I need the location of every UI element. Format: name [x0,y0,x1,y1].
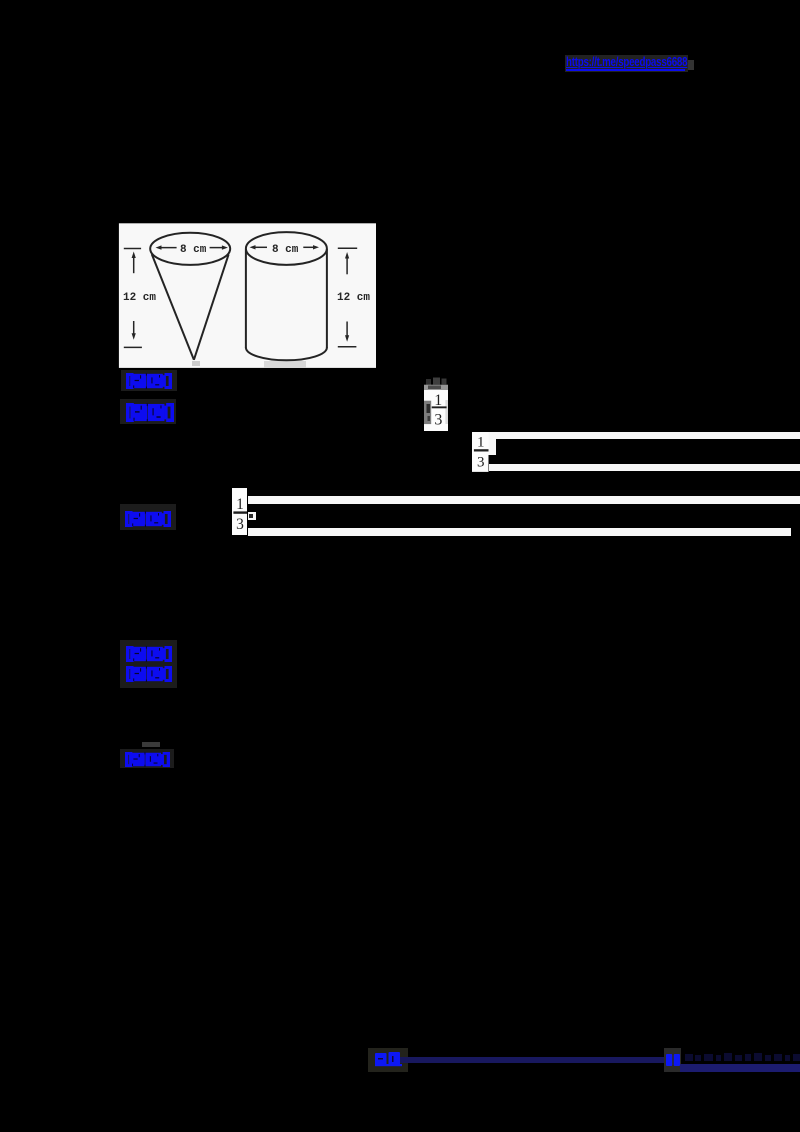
svg-text:12 cm: 12 cm [123,292,156,304]
svg-text:1: 1 [434,392,442,409]
svg-text:3: 3 [434,411,442,428]
svg-text:3: 3 [236,516,244,533]
svg-text:12 cm: 12 cm [337,292,370,304]
svg-text:8 cm: 8 cm [180,244,207,256]
svg-text:8 cm: 8 cm [272,244,299,256]
svg-text:1: 1 [477,435,485,451]
svg-text:3: 3 [477,454,485,470]
svg-text:1: 1 [236,496,244,513]
